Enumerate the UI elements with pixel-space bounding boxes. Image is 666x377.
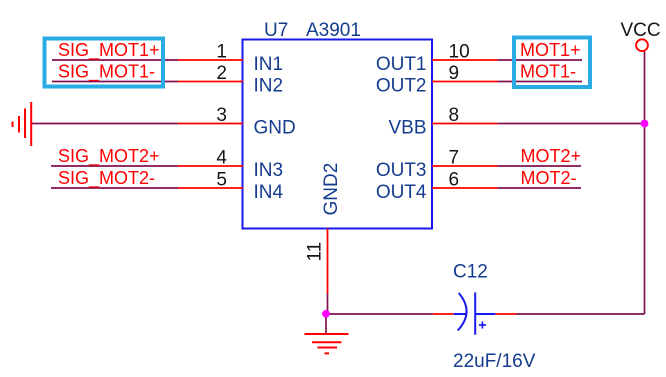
capacitor C12 right lead — [475, 313, 495, 315]
pin 2 IN2 — [178, 63, 283, 97]
capacitor C12 curved plate — [458, 293, 467, 331]
svg-text:MOT1+: MOT1+ — [520, 40, 581, 60]
pin 9 OUT2 — [376, 63, 498, 97]
svg-text:IN1: IN1 — [254, 54, 284, 75]
svg-text:C12: C12 — [453, 262, 488, 283]
net label MOT2+ — [521, 146, 582, 166]
value A3901 — [306, 20, 361, 41]
junction dot at VBB/VCC rail — [641, 120, 649, 128]
wire junction to ground — [325, 314, 327, 334]
svg-text:VCC: VCC — [621, 20, 661, 41]
svg-text:11: 11 — [305, 242, 326, 262]
svg-text:OUT2: OUT2 — [376, 76, 427, 97]
value 22uF/16V — [453, 351, 536, 372]
svg-text:SIG_MOT2+: SIG_MOT2+ — [58, 146, 160, 167]
pin 11 GND2 — [305, 163, 343, 294]
svg-text:SIG_MOT1-: SIG_MOT1- — [58, 61, 155, 82]
pin 7 OUT3 — [376, 148, 498, 182]
pin 5 IN4 — [178, 170, 284, 204]
wire SIG_MOT1- to pin2 — [52, 81, 178, 83]
svg-text:SIG_MOT1+: SIG_MOT1+ — [58, 40, 160, 61]
svg-text:IN2: IN2 — [254, 76, 284, 97]
pin 4 stub — [178, 165, 243, 167]
wire SIG_MOT2- to pin5 — [51, 187, 178, 189]
svg-text:6: 6 — [449, 170, 460, 191]
net label SIG_MOT2- — [58, 168, 155, 189]
net label SIG_MOT1- — [58, 61, 155, 82]
wire pin7 to MOT2+ — [498, 165, 582, 167]
pin 8 stub — [432, 123, 498, 125]
wire pin11 to junction — [327, 294, 329, 315]
refdes U7 — [264, 20, 288, 41]
svg-text:5: 5 — [216, 170, 227, 191]
annotation box around MOT1 labels — [514, 38, 590, 88]
svg-text:1: 1 — [216, 42, 227, 63]
pin 6 OUT4 — [376, 170, 498, 204]
svg-text:MOT2+: MOT2+ — [521, 146, 582, 166]
annotation box around SIG_MOT1 labels — [45, 39, 164, 87]
net label MOT1- — [520, 61, 576, 81]
svg-text:9: 9 — [449, 63, 460, 84]
VCC circle — [636, 39, 648, 51]
svg-text:10: 10 — [449, 42, 470, 63]
wire bottom right horizontal — [517, 313, 645, 315]
svg-text:2: 2 — [216, 63, 227, 84]
pin 8 VBB — [388, 105, 497, 139]
pin 5 stub — [178, 187, 243, 189]
svg-text:3: 3 — [216, 105, 227, 126]
svg-text:A3901: A3901 — [306, 20, 361, 41]
net label MOT2- — [521, 168, 577, 188]
svg-text:4: 4 — [216, 148, 227, 169]
pin 3 GND — [178, 105, 296, 139]
junction dot at pin11/ground — [322, 310, 330, 318]
svg-text:OUT4: OUT4 — [376, 182, 427, 203]
svg-text:MOT1-: MOT1- — [520, 61, 576, 81]
wire bottom left horizontal — [326, 313, 433, 315]
pin 6 stub — [432, 187, 498, 189]
svg-text:8: 8 — [449, 105, 460, 126]
svg-text:GND2: GND2 — [321, 163, 342, 216]
capacitor C12 plus sign — [481, 322, 483, 329]
pin 7 stub — [432, 165, 498, 167]
wire SIG_MOT2+ to pin4 — [51, 165, 178, 167]
pin 4 IN3 — [178, 148, 283, 182]
wire SIG_MOT1+ to pin1 — [52, 59, 178, 61]
svg-text:22uF/16V: 22uF/16V — [453, 351, 536, 372]
svg-text:IN3: IN3 — [254, 160, 284, 181]
wire ground to pin3 — [31, 123, 178, 125]
svg-text:7: 7 — [449, 148, 460, 169]
svg-text:OUT3: OUT3 — [376, 160, 427, 181]
svg-text:U7: U7 — [264, 20, 288, 41]
pin 3 stub — [178, 123, 243, 125]
svg-text:SIG_MOT2-: SIG_MOT2- — [58, 168, 155, 189]
pin 10 stub — [432, 59, 498, 61]
wire pin6 to MOT2- — [498, 187, 582, 189]
ground symbol left (rotated) — [13, 102, 32, 146]
wire pin10 to MOT1+ — [498, 59, 583, 61]
ground symbol bottom — [305, 334, 349, 353]
power symbol VCC — [621, 20, 661, 51]
op-amp U7 body — [243, 40, 433, 229]
capacitor C12 left lead — [454, 313, 466, 315]
capacitor C12 left pin stub — [433, 313, 454, 315]
svg-text:OUT1: OUT1 — [376, 54, 427, 75]
capacitor C12 straight plate — [474, 292, 476, 334]
wire VCC rail vertical — [644, 52, 646, 315]
pin 10 OUT1 — [376, 42, 498, 76]
net label SIG_MOT2+ — [58, 146, 160, 167]
wire pin9 to MOT1- — [498, 81, 583, 83]
pin 9 stub — [432, 81, 498, 83]
net label SIG_MOT1+ — [58, 40, 160, 61]
capacitor C12 right pin stub — [495, 313, 516, 315]
net label MOT1+ — [520, 40, 581, 60]
pin 1 stub — [178, 59, 243, 61]
svg-text:VBB: VBB — [388, 118, 426, 139]
wire pin8 VBB to VCC rail — [498, 123, 645, 125]
pin 2 stub — [178, 81, 243, 83]
svg-text:IN4: IN4 — [254, 182, 284, 203]
pin 11 stub — [327, 229, 329, 294]
svg-text:MOT2-: MOT2- — [521, 168, 577, 188]
pin 1 IN1 — [178, 42, 283, 76]
refdes C12 — [453, 262, 488, 283]
svg-text:GND: GND — [254, 118, 296, 139]
capacitor C12 — [433, 292, 517, 334]
